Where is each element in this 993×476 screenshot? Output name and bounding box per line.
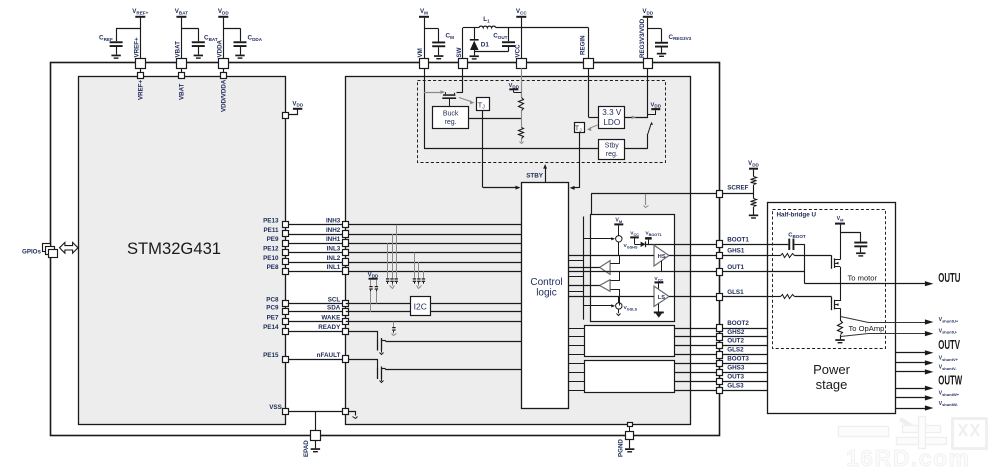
motor phase wire OUTU [805,274,934,287]
svg-text:PE9: PE9 [267,236,279,243]
svg-text:CBOOT: CBOOT [788,233,806,239]
wire OUT1 to power stage [723,271,768,273]
label To OpAmp [849,324,885,333]
svg-text:PGND: PGND [618,439,625,457]
svg-text:VshuntV+: VshuntV+ [939,356,959,362]
thermal arrow to TJ1 [459,98,475,105]
svg-text:VBAT: VBAT [174,41,181,58]
HS driver triangle [654,245,669,266]
SCREF external divider to VDD [723,161,760,219]
svg-text:I2C: I2C [414,302,427,312]
package pin REG3V3/VDD [639,18,653,68]
svg-text:PE11: PE11 [263,227,279,234]
package pin GHS1 [717,247,745,258]
svg-text:OUTW: OUTW [938,375,962,388]
driver channel 1 box [591,215,675,322]
I2C pull-up sources to VDD [368,272,379,312]
wire GHS2 [569,336,768,338]
svg-text:VshuntU+: VshuntU+ [939,317,959,323]
svg-text:OUT2: OUT2 [727,337,744,344]
svg-text:VCC: VCC [514,44,521,58]
driver pin INL1 [327,264,349,275]
svg-text:D1: D1 [481,41,490,48]
watermark (decorative) [839,417,987,472]
svg-text:OUTU: OUTU [938,272,960,285]
capacitor CREG3V3 [648,29,692,58]
svg-text:SCREF: SCREF [727,185,748,192]
supply VDD rail (REG3V3) [642,8,653,59]
svg-text:INH2: INH2 [326,227,341,234]
svg-text:INL1: INL1 [327,264,341,271]
gate resistor high side [767,254,831,258]
package pin BOOT1 [717,236,750,247]
TJ1 block [477,98,490,111]
buck SW net: wire + inductor L1 [463,16,589,59]
driver channel 3 box [585,361,675,393]
wire PE12 to INL3 [286,252,522,254]
package pin GLS3 [717,382,745,393]
svg-text:VshuntW+: VshuntW+ [939,391,960,397]
supply VBAT rail [175,8,188,59]
MCU pin PE14 [263,324,288,334]
svg-text:VM: VM [837,216,844,222]
wire OUT1 [569,271,720,273]
svg-text:Control: Control [530,277,562,288]
package boundary STSPIN32G4 [51,63,720,436]
wire BOOT1 [646,244,720,246]
svg-text:VREF+: VREF+ [138,79,145,100]
svg-text:PE12: PE12 [263,245,279,252]
svg-text:GHS3: GHS3 [727,365,745,372]
gate current source high side [584,218,638,256]
wire VshuntV+ [896,360,934,365]
capacitor COUT [474,28,515,52]
GPIO bidirectional arrow [60,242,79,253]
supply VCC rail [516,8,527,59]
SCREF wire [591,193,719,195]
driver pin INL3 [327,245,349,255]
VDD tap at REG3V3 [648,102,662,115]
shunt resistor [835,321,844,344]
svg-text:PE14: PE14 [263,324,279,331]
svg-text:GLS1: GLS1 [727,289,744,296]
label VshuntV+ [939,356,959,362]
MCU pin PE11 [263,227,288,237]
svg-text:OUT3: OUT3 [727,374,744,381]
thermal arrow LDO to TJ2 [587,125,598,131]
svg-text:PC9: PC9 [266,305,279,312]
driver pin INH3 [326,218,349,228]
svg-text:reg.: reg. [445,119,457,126]
wire PE9 to INH1 [286,243,522,245]
package pin OUT2 [717,337,745,348]
svg-text:INL2: INL2 [327,255,341,262]
svg-text:VM: VM [615,218,622,224]
REGIN internal wire [589,68,600,117]
svg-text:VDDA: VDDA [216,39,223,57]
svg-text:OUT1: OUT1 [727,264,744,271]
MCU pin PC9 [266,305,288,315]
MCU die pin VDD/VDDA [221,68,228,112]
wire PE15 to nFAULT [286,359,346,361]
bootstrap: VCC bar, diode, VBOOT1 bar [630,231,661,248]
stby supply wire from VM [424,148,599,150]
label VshuntU- [939,328,958,334]
I2C block [411,297,431,316]
wire OUT2 [569,345,768,347]
gate current sink low side [584,297,638,316]
label OUTU [938,272,960,285]
Stby reg block [599,140,625,160]
wire PE8 to INL1 [286,271,522,273]
svg-text:VDD: VDD [748,161,759,167]
package pin GHS3 [717,365,745,376]
buck pass transistor [424,68,463,107]
wire READY internal [386,341,522,343]
pull-down on WAKE [392,322,397,336]
wire VshuntU+ [841,317,934,325]
wire GLS1 to power stage [723,296,768,298]
wire PC8 to SCL [286,303,346,305]
label OUTV [938,339,960,352]
capacitor CBAT [181,28,217,59]
wire GLS3 [569,390,768,392]
MCU die block [79,77,286,425]
svg-text:OUTV: OUTV [938,339,960,352]
VCC sense divider [509,68,522,97]
svg-text:Stby: Stby [605,142,620,149]
svg-text:REG3V3/VDD: REG3V3/VDD [639,18,646,58]
package pin VREF+ [133,37,145,69]
driver channel 2 box [585,326,675,357]
svg-text:GPIOs: GPIOs [22,248,41,255]
STBY signal [526,164,547,182]
wire nFAULT internal [386,369,522,371]
wire GHS1 to power stage [723,255,768,257]
svg-text:GLS3: GLS3 [727,382,744,389]
wire OUT3 [569,381,768,383]
low side MOSFET [832,284,841,321]
package pin OUT1 [717,264,745,276]
svg-text:To OpAmp: To OpAmp [849,324,885,333]
wire comparator2 output [569,285,600,287]
svg-text:16RD.com: 16RD.com [846,445,970,471]
half-bridge U dashed box [773,210,886,349]
svg-text:HS: HS [658,254,666,260]
VM internal wire [424,68,426,148]
package pin REGIN [580,35,594,69]
capacitor CDDA [223,28,262,59]
package pin GLS1 [717,289,745,301]
Power stage block [768,203,896,414]
capacitor CM [424,29,454,60]
resistor divider upper [519,98,524,111]
svg-text:PE8: PE8 [267,264,279,271]
svg-text:PC8: PC8 [266,296,279,303]
MCU pin PE8 [267,264,289,275]
wire VshuntU- [841,331,934,337]
svg-text:SDA: SDA [327,305,341,312]
svg-text:READY: READY [318,324,341,331]
wire BOOT1 to power stage [723,244,768,246]
MCU pin PE15 [263,352,288,363]
wire PC9 to SDA [286,311,346,313]
package pin BOOT3 [717,356,750,367]
package pin VCC [514,44,526,69]
gate driver die block [346,77,691,425]
label OUTW [938,375,962,388]
driver pin INH1 [326,236,349,247]
wire SDA to I2C [346,311,522,313]
package pin BOOT2 [717,320,750,331]
svg-text:reg.: reg. [606,151,618,158]
svg-text:SW: SW [456,47,463,57]
svg-text:INH1: INH1 [326,236,341,243]
LDO output wire [625,116,648,119]
svg-text:LS: LS [658,295,665,301]
wire GLS2 [569,354,768,356]
wire VshuntW- [896,405,934,410]
supply VDD rail [218,8,229,59]
svg-text:Buck: Buck [443,110,459,117]
MCU pin PE13 [263,218,288,228]
driver pin VSS [343,409,358,419]
HS output to phase [661,261,663,272]
wire VshuntW+ [896,395,934,400]
svg-text:Half-bridge U: Half-bridge U [777,212,817,219]
svg-text:VDD/VDDA: VDD/VDDA [221,79,228,112]
package pin VDDA [216,39,228,68]
level comparator 2 [600,280,611,292]
wire PE13 to INH3 [286,224,522,226]
driver pin INL2 [327,255,349,266]
control bus rows [569,261,584,292]
svg-text:STBY: STBY [526,173,544,180]
svg-text:EPAD: EPAD [303,440,310,457]
svg-text:PE13: PE13 [263,218,279,225]
svg-text:BOOT1: BOOT1 [727,236,749,243]
wire TJ1 to control logic [483,111,521,190]
wire SCL to I2C [346,303,522,305]
regulators dashed box [418,81,666,163]
MCU pin PE9 [267,236,289,247]
driver pin nFAULT [317,352,349,363]
driver pin SDA [327,305,348,316]
package pin GLS2 [717,347,745,359]
wire BOOT2 [569,328,768,330]
wire GHS1 / HS input [569,255,720,257]
svg-text:GLS2: GLS2 [727,347,744,354]
open-drain transistor on READY [349,332,386,355]
driver pin READY [318,324,348,334]
MCU die pin VBAT [179,68,186,100]
svg-text:3.3 V: 3.3 V [602,108,622,117]
GPIOs stacked pins [22,244,58,258]
capacitor VM decoupling [854,232,867,256]
svg-text:VDD: VDD [368,272,379,278]
Buck reg block [433,107,469,129]
label VshuntW+ [939,391,960,397]
comparator1 inputs [611,256,620,264]
svg-text:WAKE: WAKE [321,314,340,321]
wire OUTV [896,350,934,355]
driver pin SCL [328,296,349,306]
svg-text:PE10: PE10 [263,255,279,262]
LS driver triangle with VCC [654,276,669,317]
TJ2 block [575,123,585,134]
wire VshuntV- [896,369,934,374]
label VshuntV- [939,365,958,371]
svg-text:SCL: SCL [328,296,341,303]
wire GLS1 / LS input [569,296,720,298]
MCU pin PE12 [263,245,288,255]
svg-text:Power: Power [813,362,851,377]
current reference arrow [644,194,649,208]
wire PE10 to INL2 [286,262,522,264]
wire OUT1 to phase [767,271,804,273]
wire PE7 to WAKE [286,321,346,323]
svg-text:VDD: VDD [651,102,662,108]
level comparator 1 [600,261,611,275]
supply VM rail [419,8,429,59]
svg-text:GHS2: GHS2 [727,329,745,336]
capacitor CREF [99,28,140,59]
label VshuntU+ [939,317,959,323]
MCU pin PE10 [263,255,288,265]
wire PE14 to READY [286,331,346,333]
diode D1 [470,28,490,60]
Control logic block [522,183,569,409]
supply VREF+ rail [132,8,148,59]
svg-text:INH3: INH3 [326,218,341,225]
MCU pin VSS [269,404,288,414]
package pin GHS2 [717,329,745,341]
svg-text:nFAULT: nFAULT [317,352,341,359]
supply VM power [835,216,861,233]
MCU pin PE7 [267,314,289,324]
label VshuntW- [939,401,959,407]
svg-text:VSS: VSS [269,404,282,411]
wire comparator1 output [569,267,600,269]
package pin SCREF [717,185,749,198]
resistor divider lower [519,111,524,144]
driver pin INH2 [326,227,349,238]
svg-text:GHS1: GHS1 [727,247,745,254]
wire BOOT3 [569,363,768,365]
package pin SW [456,47,468,68]
comparator2 inputs [611,272,620,306]
svg-text:STM32G431: STM32G431 [127,239,221,258]
wire TJ2 to control logic [570,133,580,190]
svg-text:VDD: VDD [509,83,520,89]
svg-text:VM: VM [417,48,424,57]
svg-text:VshuntV-: VshuntV- [939,365,958,371]
svg-text:To motor: To motor [848,274,878,283]
EPAD pin with ground [303,411,320,457]
pull-down current sources on INH1-INH3 [386,225,398,289]
MCU die pin VREF+ [138,68,145,100]
wire PE11 to INH2 [286,234,522,236]
high side MOSFET [832,232,841,283]
open-drain transistor on nFAULT [349,360,386,383]
buck feedback wire [469,118,522,120]
svg-text:stage: stage [816,377,848,392]
svg-text:LDO: LDO [603,118,620,127]
wire WAKE internal [346,321,522,323]
svg-text:VREF+: VREF+ [133,37,140,58]
svg-text:VshuntU-: VshuntU- [939,328,958,334]
svg-text:BOOT3: BOOT3 [727,356,749,363]
svg-text:PE7: PE7 [267,314,279,321]
svg-text:VshuntW-: VshuntW- [939,401,959,407]
package pin VM [417,48,429,68]
svg-text:BOOT2: BOOT2 [727,320,749,327]
MCU VDD pin with supply tap [283,100,304,118]
svg-text:REGIN: REGIN [580,35,587,55]
3.3V LDO block [599,107,625,129]
wire boot to phase [804,244,806,283]
bus vertical A [591,194,593,304]
pull-down current sources on INL1-INL3 [413,253,425,289]
regulator selection switch [625,122,653,149]
REG3V3 internal wire [647,68,649,118]
REGIN loop wire from VCC [588,28,590,59]
PGND pins and ground [618,423,635,458]
gate resistor low side [767,295,831,299]
svg-text:INL3: INL3 [327,245,341,252]
wire GHS3 [569,372,768,374]
MCU pin PC8 [266,296,288,306]
svg-text:PE15: PE15 [263,352,279,359]
wire OUTW [896,386,934,391]
package pin VBAT [174,41,186,69]
capacitor CBOOT [767,233,806,250]
driver pin WAKE [321,314,348,324]
package pin OUT3 [717,374,745,385]
wire VSS [286,411,346,413]
svg-text:VBAT: VBAT [179,83,186,100]
svg-text:logic: logic [536,288,557,299]
bus vertical B [583,217,585,320]
